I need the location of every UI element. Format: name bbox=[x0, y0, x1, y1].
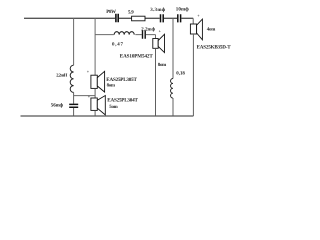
svg-text:3.3mф: 3.3mф bbox=[150, 7, 166, 13]
svg-text:EAS25PL305T: EAS25PL305T bbox=[106, 77, 137, 83]
wire: cap to bottom rail bbox=[73, 108, 75, 116]
wire: midrange row bbox=[95, 35, 155, 39]
wire: coil to cap node bbox=[73, 92, 75, 103]
inductor L 0,18 bbox=[171, 79, 173, 99]
resistor R 5.9 bbox=[132, 16, 145, 21]
node: junction to 0,18 branch bbox=[172, 18, 174, 78]
svg-text:EAS25KB35D-T: EAS25KB35D-T bbox=[197, 45, 232, 51]
svg-text:5om: 5om bbox=[109, 104, 117, 110]
speaker U4 woofer EAS25PL304T bbox=[91, 96, 105, 115]
svg-text:EAS10PM542T: EAS10PM542T bbox=[120, 53, 154, 59]
svg-text:+: + bbox=[159, 28, 162, 33]
svg-text:56mф: 56mф bbox=[51, 103, 64, 109]
svg-text:+: + bbox=[88, 94, 91, 99]
capacitor C 10mF bbox=[178, 14, 181, 22]
svg-text:2.2mф: 2.2mф bbox=[141, 26, 155, 32]
svg-text:P8W: P8W bbox=[106, 9, 116, 15]
wire: link to woofer midpoint bbox=[74, 95, 96, 97]
wire: between woofers bbox=[94, 88, 96, 98]
capacitor P8W bbox=[116, 14, 118, 22]
wire: woofer2 to bottom rail bbox=[94, 110, 96, 116]
wire: to tweeter bbox=[192, 18, 194, 24]
speaker U2 midrange EAS10PM542T bbox=[153, 34, 165, 52]
svg-text:+: + bbox=[197, 13, 200, 18]
inductor L 2.2mH bbox=[70, 65, 73, 92]
wire: 0,18 to bottom rail bbox=[172, 98, 174, 116]
svg-text:EAS25PL304T: EAS25PL304T bbox=[107, 97, 138, 103]
wire: bottom return rail bbox=[21, 115, 194, 117]
svg-text:0,47: 0,47 bbox=[112, 42, 124, 48]
wire: tweeter to bottom rail bbox=[192, 34, 194, 116]
svg-text:8om: 8om bbox=[158, 62, 166, 68]
wire: vertical feed to midrange row and upper woofer bbox=[94, 18, 96, 75]
capacitor C 56mF bbox=[69, 104, 78, 107]
wire: top input rail bbox=[24, 17, 193, 19]
svg-text:2.2mH: 2.2mH bbox=[56, 73, 68, 78]
svg-text:5.9: 5.9 bbox=[128, 10, 134, 16]
capacitor C 2.2mF bbox=[143, 31, 146, 39]
svg-text:8om: 8om bbox=[107, 82, 115, 88]
wire: left branch vertical bbox=[73, 18, 75, 65]
capacitor C 3.3mF bbox=[161, 14, 164, 22]
speaker U3 woofer EAS25PL305T bbox=[91, 71, 105, 92]
inductor L 0,47 bbox=[114, 32, 134, 35]
speaker U1 tweeter EAS25KB35D-T bbox=[190, 19, 202, 40]
svg-text:4om: 4om bbox=[207, 27, 215, 33]
svg-text:10mф: 10mф bbox=[176, 7, 189, 13]
svg-text:+: + bbox=[87, 69, 90, 74]
wire: midrange to bottom rail bbox=[155, 48, 157, 116]
svg-text:0,18: 0,18 bbox=[176, 70, 185, 76]
